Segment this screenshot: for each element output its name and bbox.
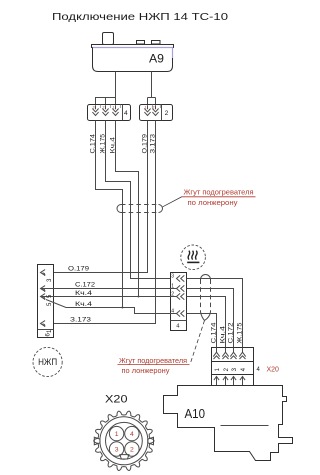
svg-text:4: 4 xyxy=(171,309,174,315)
instrument panel connector (6) xyxy=(38,265,54,338)
leader line to note 2 xyxy=(190,321,205,365)
junction dots xyxy=(122,296,140,309)
pin 3 of X20 xyxy=(109,442,123,456)
contact pin 2 of left block xyxy=(102,105,110,116)
connector X20 device pins row xyxy=(212,375,254,386)
svg-text:3: 3 xyxy=(115,447,119,454)
wire З.173 label xyxy=(70,317,91,324)
label wire С.174 xyxy=(90,134,97,154)
svg-text:Х20: Х20 xyxy=(267,367,280,374)
svg-text:3: 3 xyxy=(93,105,95,109)
wire Кч.4 to X20 xyxy=(187,297,226,348)
keyway right xyxy=(148,437,154,445)
wire С.174 run xyxy=(96,121,123,308)
svg-text:З.173: З.173 xyxy=(70,317,91,324)
inline connector (4) xyxy=(171,273,187,331)
svg-text:С.172: С.172 xyxy=(75,282,95,289)
label wire Ж.175 xyxy=(100,134,107,154)
svg-text:Х20: Х20 xyxy=(105,394,128,406)
svg-text:2: 2 xyxy=(165,110,169,117)
red note: heater harness along side member (lower) xyxy=(118,356,190,375)
label wire С.172 (bottom) xyxy=(227,322,234,343)
unit A9 xyxy=(92,33,174,72)
svg-text:Кч.4: Кч.4 xyxy=(219,326,226,344)
svg-text:Жгут подогревателя: Жгут подогревателя xyxy=(119,356,187,365)
svg-text:4: 4 xyxy=(124,110,128,117)
pin 4 of X20 xyxy=(125,426,139,440)
pin 2 of X20 xyxy=(125,442,139,456)
label wire Кч.4 (bottom) xyxy=(219,326,226,344)
heater unit A10 xyxy=(164,386,293,461)
wire С.174 to X20 xyxy=(187,314,217,348)
wire З.173 run xyxy=(41,121,156,324)
label wire Кч.4 xyxy=(109,137,116,154)
wire О.179 run xyxy=(41,121,148,273)
connector block (A9 left, 4) xyxy=(88,105,131,121)
label wire Ж.175 (bottom) xyxy=(236,322,243,343)
svg-text:Ж.175: Ж.175 xyxy=(236,322,243,343)
keyway left xyxy=(94,437,100,445)
svg-text:3: 3 xyxy=(171,274,174,280)
wire С.172 to X20 xyxy=(187,289,234,348)
connector X20 face view xyxy=(94,394,154,471)
contact pin 1 of panel connector xyxy=(41,321,54,333)
svg-text:по лонжерону: по лонжерону xyxy=(188,198,238,207)
label 4 and X20 designator xyxy=(257,367,280,374)
svg-text:А9: А9 xyxy=(149,52,164,66)
label wire С.174 (bottom) xyxy=(210,322,217,343)
svg-text:Подключение НЖП 14 ТС-10: Подключение НЖП 14 ТС-10 xyxy=(52,12,228,23)
heater indicator symbol xyxy=(181,245,206,270)
wire from A9 to right block xyxy=(148,72,156,105)
harness bundle wrap 2 xyxy=(201,275,211,321)
svg-text:2: 2 xyxy=(171,292,174,298)
contact pin 3 of inline connector xyxy=(171,274,184,282)
svg-text:1: 1 xyxy=(113,105,115,109)
svg-text:О.179: О.179 xyxy=(68,266,89,273)
wire С.172 xyxy=(41,282,177,289)
svg-text:1: 1 xyxy=(115,431,119,438)
contact pin 5 of panel connector xyxy=(41,286,54,298)
keyway bottom xyxy=(120,455,129,459)
svg-text:Кч.4: Кч.4 xyxy=(75,301,92,308)
contact pin 1 of right block xyxy=(144,105,152,116)
label wire О.179 xyxy=(141,134,148,154)
svg-text:А10: А10 xyxy=(185,407,206,421)
svg-text:Кч.4: Кч.4 xyxy=(75,290,92,297)
harness bundle wrap 1 xyxy=(117,205,163,213)
svg-text:по лонжерону: по лонжерону xyxy=(122,366,170,375)
svg-text:Жгут подогревателя: Жгут подогревателя xyxy=(184,188,254,197)
node НЖП (heater unit circle) xyxy=(33,347,62,376)
contact pin 4 of inline connector xyxy=(171,309,184,317)
connector X20 sockets row xyxy=(212,348,254,362)
contact pin 1 of left block xyxy=(112,105,120,116)
connector block (A9 right, 2) xyxy=(140,105,173,121)
wire from A9 to left block xyxy=(96,72,116,105)
svg-text:1: 1 xyxy=(171,284,174,290)
wire Ж.175 to X20 xyxy=(187,279,243,348)
contact pin 3 of panel connector xyxy=(41,270,54,282)
contact pin 1 of inline connector xyxy=(171,284,184,292)
svg-text:2: 2 xyxy=(103,105,105,109)
svg-text:НЖП: НЖП xyxy=(38,357,57,367)
svg-text:2: 2 xyxy=(130,447,134,454)
leader line to note 1 xyxy=(163,197,182,207)
contact pin 2 of right block xyxy=(152,105,160,116)
svg-text:4: 4 xyxy=(257,367,261,373)
svg-text:1: 1 xyxy=(145,105,147,109)
wire Кч.4 run xyxy=(116,121,139,297)
pin 1 of X20 xyxy=(109,426,123,440)
contact pin 3 of left block xyxy=(92,105,100,116)
wire Кч.4 branch a xyxy=(41,290,177,297)
wire Кч.4 branch b xyxy=(46,300,177,314)
svg-text:С.174: С.174 xyxy=(210,322,217,343)
svg-text:2: 2 xyxy=(153,105,155,109)
contact pin 2 of inline connector xyxy=(171,292,184,300)
contact pin 5 of panel connector xyxy=(41,294,54,306)
connector X20 pin numbers row xyxy=(212,362,254,375)
svg-text:С.172: С.172 xyxy=(227,322,234,343)
label wire З.173 xyxy=(149,134,156,154)
wire Ж.175 run xyxy=(106,121,177,279)
red note: heater harness along side member (upper) xyxy=(182,188,256,208)
wire О.179 label xyxy=(68,266,89,273)
svg-text:4: 4 xyxy=(130,431,134,438)
